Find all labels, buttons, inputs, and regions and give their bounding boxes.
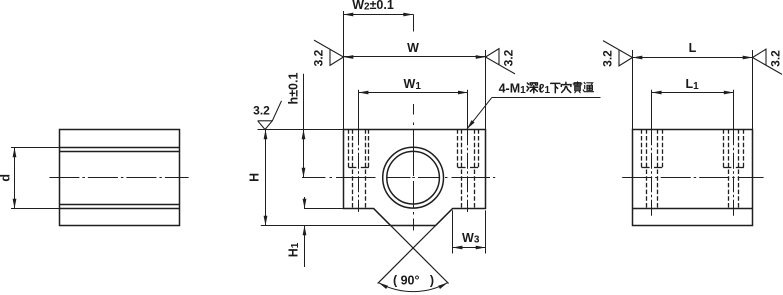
left view bore top outer edge [60, 147, 181, 149]
horizontal centerline center view [302, 177, 495, 179]
hole centerline right [467, 90, 469, 212]
svg-text:W2±0.1: W2±0.1 [352, 0, 394, 12]
dimension W3 [453, 231, 486, 250]
tapped hole M1 right, front view [458, 129, 479, 208]
hole centerline left, right view [651, 90, 653, 216]
extension line chamfer corner (W3) [452, 210, 454, 253]
90 degree angle arc with arrows [379, 274, 448, 292]
hole centerline left [358, 90, 360, 212]
left view bore bottom inner edge [60, 204, 181, 206]
svg-text:L: L [689, 41, 697, 55]
dimension H [248, 130, 268, 226]
center view body outline with 45deg chamfers [344, 130, 486, 226]
extension line right edge (L) [752, 50, 754, 130]
tapped hole M1 right, right view [723, 129, 744, 208]
dimension d [14, 147, 16, 208]
dimension W [344, 41, 486, 59]
leader line for tapped holes note [467, 97, 601, 129]
dimension W1 [359, 77, 468, 94]
left view bore bottom outer edge [60, 208, 181, 210]
bore inner circle [387, 151, 440, 204]
note 4-M1 deep l1 pilot through [499, 82, 551, 97]
svg-text:3.2: 3.2 [502, 49, 516, 66]
extension line right edge (W) [485, 50, 487, 130]
hole centerline right, right view [733, 90, 735, 216]
svg-text:3.2: 3.2 [253, 103, 270, 117]
right view body outline [633, 130, 753, 226]
extension line d top [11, 147, 60, 149]
surface finish 3.2 right of L [753, 49, 783, 74]
dimension L [633, 41, 753, 60]
right view horizontal centerline [622, 177, 763, 179]
surface finish 3.2 left of L [601, 41, 633, 67]
kanji 穴 (hole) [561, 82, 571, 92]
svg-text:W: W [407, 41, 419, 55]
surface finish 3.2 right of W [486, 49, 516, 74]
svg-text:3.2: 3.2 [312, 49, 326, 66]
svg-text:d: d [0, 174, 13, 182]
left view horizontal centerline [49, 177, 188, 179]
extension line left edge (W/W2) [343, 11, 345, 130]
tapped hole M1 left, right view [642, 129, 663, 208]
extension line right edge (W3) [485, 210, 487, 253]
tapped hole M1 left, front view [348, 129, 368, 208]
kanji 貫 (pierce) [573, 82, 582, 93]
left view body outline [60, 130, 180, 226]
extension line top face (left) [258, 129, 344, 131]
surface finish 3.2 on top face (left) [253, 101, 281, 130]
left view bore top inner edge [60, 151, 181, 153]
dimension L1 [652, 77, 734, 94]
bore outer circle [383, 147, 444, 208]
vertical centerline center view [413, 14, 415, 230]
dimension H1 [287, 197, 307, 267]
svg-text:H: H [248, 173, 262, 182]
left 45deg construction line [374, 209, 449, 284]
kanji 下 (below) [551, 83, 560, 92]
extension line d bottom [11, 208, 60, 210]
svg-text:3.2: 3.2 [769, 50, 783, 67]
extension line foot face (left) [304, 208, 344, 210]
dimension W2±0.1 [344, 0, 414, 16]
right 45deg construction line [378, 209, 453, 284]
extension line left edge (L) [632, 50, 634, 130]
svg-text:h±0.1: h±0.1 [287, 73, 301, 105]
kanji 通 (through) [583, 82, 593, 91]
svg-text:( 90° ): ( 90° ) [393, 274, 434, 288]
dimension h±0.1 [287, 73, 306, 178]
surface finish 3.2 left of W [312, 40, 344, 66]
extension line bottom face (left) [261, 225, 391, 227]
svg-text:3.2: 3.2 [601, 50, 615, 67]
right view foot relief line [633, 208, 753, 210]
kanji 深 (deep) [527, 83, 538, 93]
